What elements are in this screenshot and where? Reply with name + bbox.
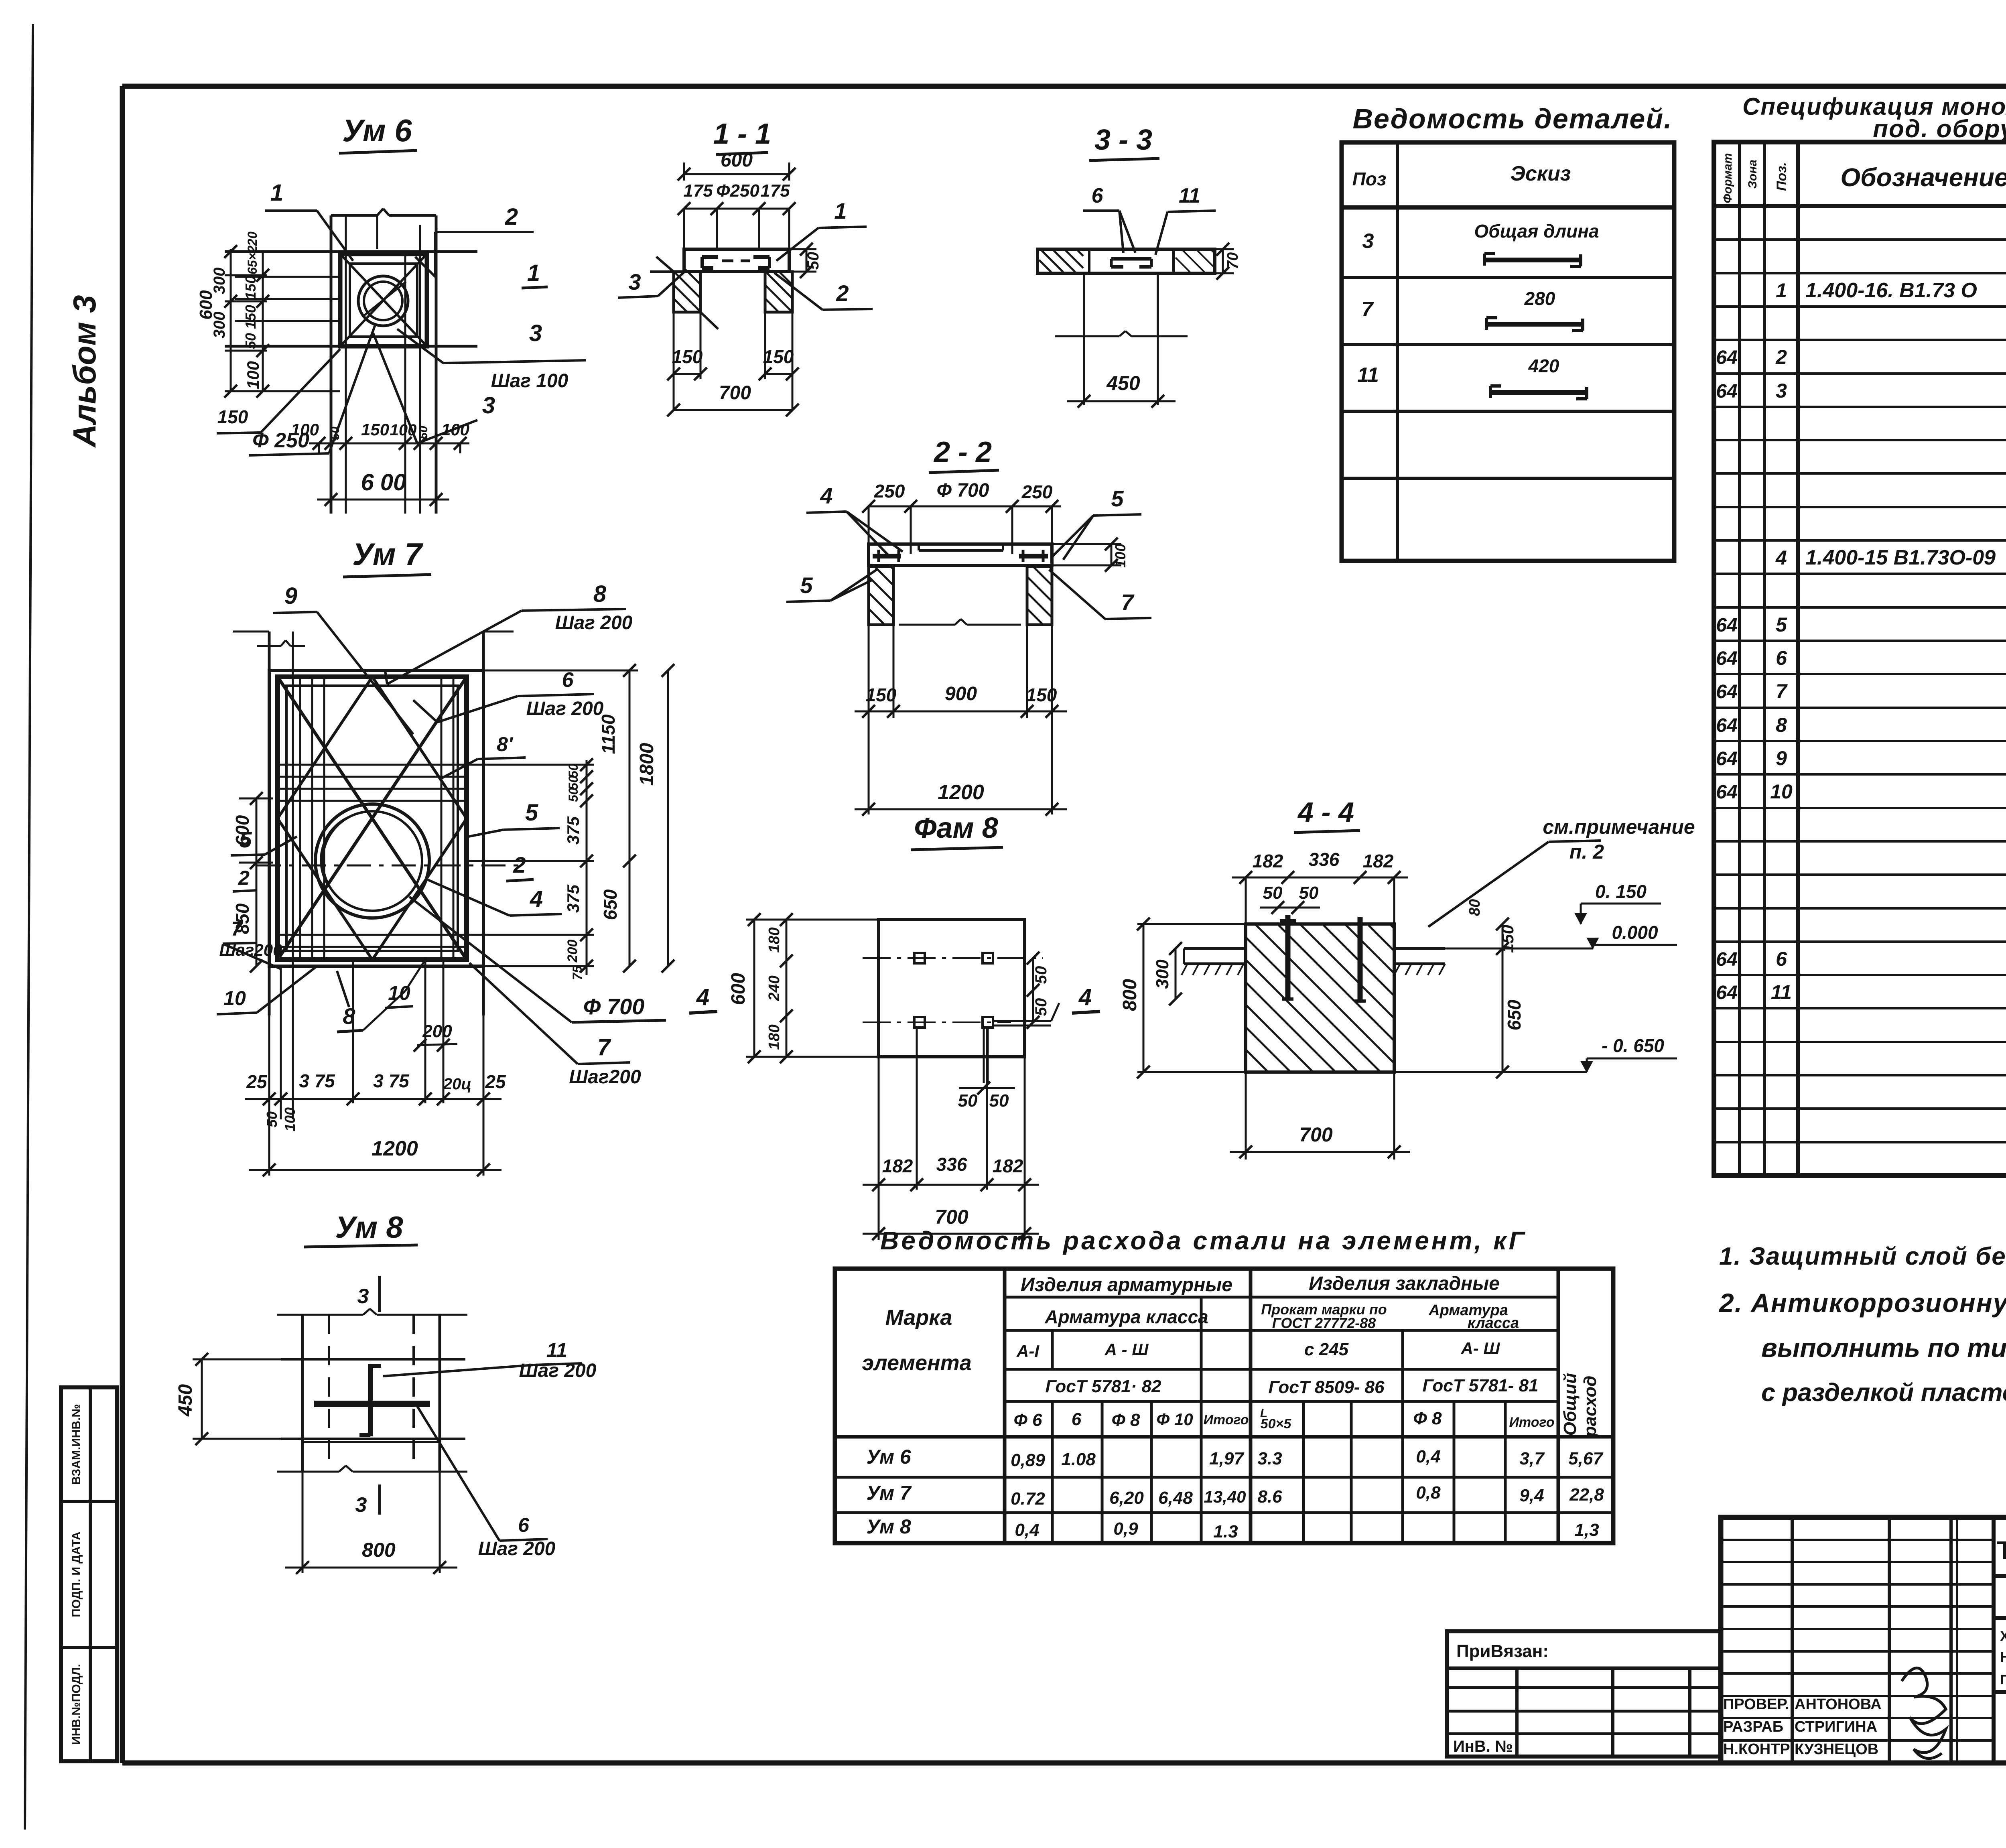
svg-text:5: 5: [1776, 613, 1787, 636]
parts list title: [1352, 103, 1672, 134]
svg-text:Ум 8: Ум 8: [866, 1515, 911, 1538]
leader 3 lower: [373, 333, 495, 443]
svg-text:100: 100: [1112, 544, 1129, 568]
svg-text:4: 4: [530, 886, 543, 912]
svg-text:2: 2: [1775, 346, 1787, 368]
2-2 leader 5 right: [1051, 486, 1141, 560]
svg-text:А - Ш: А - Ш: [1105, 1340, 1149, 1359]
svg-text:Шаг 200: Шаг 200: [555, 612, 633, 634]
plan Um6 reinforcement square: [340, 254, 427, 346]
svg-text:Ведомость расхода стали на эле: Ведомость расхода стали на элемент, кГ: [880, 1226, 1527, 1255]
1-1 dim 50: [789, 243, 822, 278]
svg-text:КУЗНЕЦОВ: КУЗНЕЦОВ: [1795, 1741, 1878, 1758]
svg-text:100: 100: [282, 1107, 298, 1131]
svg-text:Ф 10: Ф 10: [1156, 1410, 1193, 1429]
svg-text:2: 2: [238, 867, 250, 889]
svg-text:1.3: 1.3: [1213, 1522, 1238, 1541]
3-3 dim 70: [1215, 243, 1241, 280]
svg-text:2: 2: [505, 204, 518, 230]
svg-text:600: 600: [728, 973, 749, 1005]
svg-text:50: 50: [264, 1111, 280, 1127]
svg-text:1.08: 1.08: [1061, 1450, 1096, 1469]
1-1 leader 3: [618, 269, 687, 298]
svg-text:Поз.: Поз.: [1774, 162, 1789, 191]
svg-text:150: 150: [866, 684, 897, 705]
svg-text:Итого: Итого: [1203, 1412, 1249, 1428]
plan Um6 wall vertical strip: [331, 209, 436, 514]
section mark 1 (Um6): [522, 260, 548, 288]
svg-text:450: 450: [175, 1384, 196, 1417]
svg-text:- 0. 650: - 0. 650: [1602, 1035, 1664, 1056]
svg-text:150: 150: [242, 305, 259, 329]
svg-text:8: 8: [593, 581, 607, 607]
svg-text:100: 100: [390, 421, 417, 439]
1-1 bottom dims 150 150 700: [667, 312, 799, 416]
svg-text:336: 336: [936, 1154, 967, 1175]
svg-text:64: 64: [1716, 748, 1737, 770]
note 2 line3: [1761, 1379, 2006, 1407]
title block stage cells: [1994, 1618, 2006, 1692]
1-1 leader 1: [776, 198, 867, 261]
Um7 dim 1800: [636, 664, 674, 973]
svg-text:6 00: 6 00: [361, 469, 406, 496]
svg-text:ГосТ 5781- 81: ГосТ 5781- 81: [1423, 1376, 1539, 1395]
svg-text:Ф 700: Ф 700: [583, 994, 645, 1019]
svg-text:50: 50: [417, 426, 430, 439]
svg-text:Эскиз: Эскиз: [1511, 162, 1571, 185]
Um8 wall strip: [277, 1309, 467, 1472]
svg-text:64: 64: [1716, 982, 1737, 1003]
svg-text:Поз: Поз: [1352, 169, 1387, 189]
svg-text:Т П 9 0 1 - 7 - 1 7. 9 0: Т П 9 0 1 - 7 - 1 7. 9 0: [1997, 1536, 2006, 1565]
svg-text:1,3: 1,3: [1574, 1520, 1599, 1540]
svg-text:1: 1: [1776, 279, 1787, 302]
svg-text:11: 11: [1179, 184, 1200, 207]
svg-text:3 75: 3 75: [299, 1070, 335, 1091]
svg-text:375: 375: [564, 884, 583, 913]
svg-text:Ум 6: Ум 6: [866, 1446, 911, 1468]
svg-text:расход: расход: [1580, 1376, 1600, 1438]
svg-text:ХЛОРАТОРНАЯ ДЛЯ ОБЕЗЗАРАЖИВА-: ХЛОРАТОРНАЯ ДЛЯ ОБЕЗЗАРАЖИВА-: [2000, 1629, 2006, 1644]
svg-text:Общая длина: Общая длина: [1474, 221, 1599, 242]
svg-text:Ф 8: Ф 8: [1111, 1410, 1140, 1430]
svg-text:3: 3: [482, 392, 495, 418]
svg-text:выполнить по типу пола „ 1" на: выполнить по типу пола „ 1" на листе АР-…: [1761, 1333, 2006, 1363]
svg-text:336: 336: [1309, 849, 1340, 870]
3-3 leader 6: [1083, 184, 1135, 253]
svg-text:1. Защитный слой бетона - 20: 1. Защитный слой бетона - 20мм.: [1719, 1243, 2006, 1270]
svg-text:300: 300: [1153, 959, 1172, 989]
4-4 floor slabs left right: [1182, 948, 1445, 975]
parts row pos7: [1362, 288, 1583, 331]
svg-text:182: 182: [1363, 851, 1394, 871]
svg-text:375: 375: [564, 816, 583, 845]
svg-text:64: 64: [1716, 648, 1737, 669]
svg-text:800: 800: [1119, 979, 1141, 1011]
svg-text:ПриВязан:: ПриВязан:: [1456, 1641, 1549, 1661]
Um7 wall verticals with breaks: [233, 632, 514, 1015]
svg-text:РАЗРАБ: РАЗРАБ: [1723, 1718, 1783, 1735]
svg-text:650: 650: [1504, 999, 1525, 1030]
svg-text:64: 64: [1716, 615, 1737, 636]
svg-text:200: 200: [422, 1021, 452, 1041]
svg-text:НИЯ ПИТЬЕВЫХ И СТОЧНЫХ ВОД: НИЯ ПИТЬЕВЫХ И СТОЧНЫХ ВОД: [2000, 1649, 2006, 1665]
svg-text:см.примечание: см.примечание: [1543, 816, 1695, 838]
title block left grid: [1721, 1517, 1994, 1763]
signature scribbles: [1902, 1668, 1946, 1759]
Um8 monolith edges: [281, 1359, 465, 1442]
Um8 leader 11 shag200: [383, 1339, 597, 1381]
svg-text:50: 50: [242, 333, 259, 349]
svg-text:3: 3: [1362, 229, 1374, 253]
svg-text:50: 50: [1299, 883, 1319, 903]
svg-text:64: 64: [1716, 715, 1737, 736]
svg-text:6: 6: [1072, 1409, 1082, 1429]
svg-text:64: 64: [1716, 782, 1737, 803]
note reference see note p2: [1428, 816, 1695, 927]
svg-text:5,67: 5,67: [1568, 1449, 1604, 1468]
svg-text:20ц: 20ц: [443, 1075, 471, 1093]
svg-text:250: 250: [874, 481, 905, 502]
4-4 level -0.650: [1394, 1035, 1677, 1072]
svg-text:25: 25: [485, 1071, 506, 1092]
Fam8 bolt leader lines: [958, 1003, 1059, 1111]
2-2 dim 100 right: [1052, 538, 1129, 572]
label F700: [409, 897, 666, 1022]
svg-text:ПРОИЗВОДИТЕЛЬНОСТЬЮ 50КГХЛОРА: ПРОИЗВОДИТЕЛЬНОСТЬЮ 50КГХЛОРА: [2000, 1672, 2006, 1688]
svg-text:6,20: 6,20: [1109, 1488, 1144, 1508]
Fam8 bottom dims 182 336 182: [863, 1028, 1039, 1240]
specification rows text: [1716, 207, 2006, 1171]
4-4 level 0.150: [1575, 881, 1661, 924]
svg-text:Зона: Зона: [1746, 160, 1759, 189]
svg-text:11: 11: [1771, 981, 1792, 1003]
2-2 leader 7: [1049, 570, 1151, 619]
svg-text:1 - 1: 1 - 1: [713, 118, 771, 150]
svg-text:0,8: 0,8: [1416, 1483, 1441, 1503]
svg-text:150: 150: [672, 346, 703, 367]
svg-text:50: 50: [566, 788, 581, 802]
svg-text:11: 11: [1357, 364, 1379, 387]
svg-text:20: 20: [245, 232, 260, 246]
svg-text:2: 2: [513, 852, 526, 877]
steel table grid: [835, 1269, 1613, 1543]
leader 8 shag200 top: [385, 581, 633, 684]
svg-text:ПОДП. И ДАТА: ПОДП. И ДАТА: [70, 1531, 83, 1617]
svg-text:ГосТ 5781· 82: ГосТ 5781· 82: [1046, 1377, 1161, 1396]
steel table data rows: [866, 1446, 1604, 1541]
4-4 right dims 80 150 650: [1466, 899, 1525, 1078]
svg-text:175: 175: [683, 181, 713, 201]
3-3 wall below: [1055, 273, 1188, 336]
svg-text:ПРОВЕР.: ПРОВЕР.: [1723, 1696, 1789, 1713]
section 1-1 title: [713, 118, 771, 154]
leader 4 (Um7): [425, 879, 562, 916]
svg-text:Ф250: Ф250: [716, 181, 759, 201]
leader 5 right: [469, 800, 560, 837]
svg-text:1.400-16. В1.73 О: 1.400-16. В1.73 О: [1805, 279, 1977, 302]
svg-text:4: 4: [1775, 546, 1787, 569]
svg-text:10: 10: [388, 982, 410, 1004]
svg-text:600: 600: [196, 290, 216, 320]
svg-text:450: 450: [1106, 372, 1140, 394]
parts row pos3: [1362, 221, 1599, 266]
label F250: [249, 325, 375, 455]
4-4 dim 300: [1153, 942, 1182, 1005]
leader 5 left: [231, 827, 297, 855]
svg-text:Шаг 200: Шаг 200: [519, 1360, 597, 1381]
svg-text:0,89: 0,89: [1011, 1450, 1045, 1470]
svg-text:64: 64: [1716, 949, 1737, 970]
title block project name cell: [1994, 1618, 2006, 1763]
svg-text:150: 150: [217, 406, 248, 427]
steel table headers: [862, 1273, 1600, 1437]
svg-text:850: 850: [232, 903, 253, 934]
note 2 line1: [1718, 1288, 2006, 1318]
svg-text:3 75: 3 75: [373, 1070, 410, 1091]
svg-text:50: 50: [1263, 883, 1283, 903]
svg-text:3: 3: [1776, 380, 1787, 402]
4-4 foundation block hatched: [1246, 924, 1394, 1072]
svg-text:1: 1: [834, 198, 847, 223]
svg-text:150: 150: [242, 276, 259, 300]
svg-text:650: 650: [600, 889, 621, 920]
svg-text:3: 3: [355, 1493, 367, 1517]
Um7 reinforcement frame: [278, 677, 467, 960]
svg-text:Шаг 200: Шаг 200: [526, 698, 604, 719]
section 2-2 title: [929, 436, 999, 473]
2-2 leader 5 left: [786, 570, 877, 602]
svg-text:75: 75: [570, 965, 585, 980]
privyazan table: [1447, 1631, 1721, 1757]
svg-text:8': 8': [497, 733, 514, 755]
svg-text:1.400-15 В1.73О-09: 1.400-15 В1.73О-09: [1805, 546, 1996, 569]
specification title: [1742, 93, 2006, 143]
svg-text:8.6: 8.6: [1257, 1487, 1282, 1507]
svg-text:Изделия арматурные: Изделия арматурные: [1021, 1274, 1232, 1296]
section mark 4 right: [1072, 984, 1100, 1013]
svg-text:200: 200: [565, 940, 580, 963]
svg-text:с разделкой пластораствором: с разделкой пластораствором анкерных бол…: [1761, 1379, 2006, 1407]
Um7 left dims 600 850: [232, 792, 273, 973]
svg-text:Ф 8: Ф 8: [1413, 1409, 1442, 1428]
svg-text:Ведомость деталей.: Ведомость деталей.: [1352, 103, 1672, 134]
label 150 diagonal (Um6): [217, 349, 340, 433]
svg-text:6: 6: [562, 668, 574, 692]
svg-text:7: 7: [1121, 589, 1135, 615]
svg-text:9: 9: [1776, 747, 1787, 770]
svg-text:9,4: 9,4: [1519, 1486, 1544, 1505]
svg-text:1: 1: [270, 180, 283, 206]
svg-text:22,8: 22,8: [1569, 1485, 1604, 1505]
leader 2 (Um6): [415, 204, 534, 277]
note 2 line2: [1761, 1333, 2006, 1363]
svg-text:6: 6: [1092, 184, 1104, 207]
leader 10 left: [217, 966, 317, 1014]
Um7 monolith rectangle: [269, 670, 483, 966]
svg-text:3: 3: [529, 320, 542, 346]
steel table title: [880, 1226, 1527, 1255]
svg-text:с 245: с 245: [1304, 1340, 1349, 1359]
Um7 bottom dim chain: [245, 960, 506, 1176]
svg-text:0,4: 0,4: [1015, 1520, 1039, 1540]
Fam8 left dim 180 240 180: [766, 913, 914, 1063]
svg-text:3: 3: [357, 1285, 369, 1308]
svg-text:Итого: Итого: [1509, 1415, 1554, 1430]
svg-text:4 - 4: 4 - 4: [1297, 796, 1354, 828]
svg-text:50: 50: [1032, 966, 1050, 984]
svg-text:Арматура класса: Арматура класса: [1044, 1306, 1208, 1327]
4-4 bottom dim 700: [1230, 1072, 1410, 1160]
title block outer: [1721, 1517, 2006, 1763]
svg-text:100: 100: [441, 420, 469, 439]
svg-text:АНТОНОВА: АНТОНОВА: [1795, 1696, 1882, 1713]
left stamp strip table: [61, 1387, 117, 1761]
4-4 top dims 182 336 182: [1232, 849, 1408, 924]
2-2 bottom dims 150 900 150: [855, 625, 1067, 718]
svg-text:10: 10: [1770, 780, 1793, 803]
svg-text:п. 2: п. 2: [1569, 841, 1604, 863]
svg-text:Шаг 100: Шаг 100: [491, 370, 569, 392]
leader 7 shag200 left: [219, 918, 282, 969]
svg-text:А- Ш: А- Ш: [1460, 1339, 1500, 1358]
svg-text:ИНВ.№ПОДЛ.: ИНВ.№ПОДЛ.: [70, 1664, 83, 1745]
svg-text:Общий: Общий: [1560, 1373, 1580, 1436]
svg-text:13,40: 13,40: [1204, 1487, 1246, 1506]
Um6 dimension 600 bottom: [317, 469, 449, 506]
plan Um6 title: [339, 113, 417, 153]
leader 6 shag200: [413, 668, 604, 722]
Um8 section mark 3 bottom: [355, 1484, 380, 1517]
svg-text:элемента: элемента: [862, 1351, 971, 1375]
Um7 diagonal rebars: [278, 677, 467, 960]
svg-text:7: 7: [597, 1034, 611, 1060]
svg-text:6,48: 6,48: [1158, 1488, 1193, 1508]
svg-text:СТРИГИНА: СТРИГИНА: [1795, 1718, 1877, 1735]
svg-text:6: 6: [518, 1514, 530, 1536]
svg-text:9: 9: [284, 583, 297, 609]
svg-text:280: 280: [1524, 288, 1555, 309]
svg-text:150: 150: [361, 420, 389, 439]
svg-text:420: 420: [1528, 355, 1559, 376]
3-3 dim 450: [1067, 336, 1176, 408]
leader 9 (Um7): [273, 583, 413, 734]
note 1: [1719, 1243, 2006, 1270]
svg-text:Фам 8: Фам 8: [914, 812, 998, 844]
section 3-3 title: [1089, 124, 1159, 160]
svg-text:900: 900: [945, 683, 977, 705]
svg-text:3,7: 3,7: [1519, 1449, 1545, 1468]
svg-text:Шаг 200: Шаг 200: [478, 1538, 556, 1560]
svg-text:700: 700: [1299, 1123, 1333, 1146]
svg-text:1,97: 1,97: [1209, 1449, 1245, 1468]
3-3 leader 11: [1155, 184, 1216, 255]
svg-text:Шаг200: Шаг200: [569, 1066, 641, 1088]
svg-text:180: 180: [766, 1024, 783, 1050]
svg-text:Альбом 3: Альбом 3: [67, 295, 102, 448]
section 4-4 title: [1294, 796, 1360, 833]
2-2 slab: [869, 544, 1052, 565]
svg-text:6: 6: [1776, 948, 1787, 970]
svg-text:Формат: Формат: [1721, 153, 1734, 203]
leader 7 shag200 right: [469, 963, 641, 1088]
svg-text:6: 6: [1776, 647, 1787, 669]
svg-text:50: 50: [329, 426, 342, 440]
1-1 dim 600: [678, 150, 796, 181]
Fam8 left dim 600: [728, 913, 879, 1063]
svg-text:Ф 700: Ф 700: [937, 480, 989, 501]
svg-text:5: 5: [1111, 486, 1124, 511]
svg-text:50: 50: [1032, 998, 1050, 1016]
4-4 dim 800: [1119, 918, 1246, 1078]
svg-text:65×2: 65×2: [245, 246, 260, 274]
svg-text:100: 100: [244, 361, 262, 389]
svg-text:0,4: 0,4: [1416, 1447, 1440, 1466]
svg-text:7: 7: [1362, 298, 1374, 321]
svg-text:0.000: 0.000: [1612, 922, 1658, 943]
parts row pos11: [1357, 355, 1587, 399]
svg-text:4: 4: [696, 984, 709, 1010]
svg-text:1800: 1800: [636, 743, 658, 786]
Fam8 right dim 50 50: [1027, 952, 1050, 1029]
svg-text:10: 10: [223, 987, 246, 1009]
svg-text:Изделия закладные: Изделия закладные: [1309, 1273, 1500, 1294]
svg-text:100: 100: [291, 420, 319, 439]
svg-text:250: 250: [1021, 481, 1053, 502]
svg-text:0.72: 0.72: [1011, 1489, 1045, 1509]
svg-text:150: 150: [1026, 684, 1057, 705]
svg-text:64: 64: [1716, 347, 1737, 368]
svg-text:240: 240: [766, 975, 783, 1001]
svg-text:0,9: 0,9: [1113, 1519, 1138, 1539]
svg-text:700: 700: [719, 382, 751, 404]
svg-text:1200: 1200: [938, 781, 984, 804]
1-1 leader 2: [774, 273, 873, 310]
svg-text:Марка: Марка: [885, 1306, 952, 1330]
svg-text:под. оборудование.: под. оборудование.: [1873, 115, 2006, 143]
2-2 foundation blocks hatched: [869, 567, 1052, 625]
svg-text:1: 1: [527, 260, 540, 286]
2-2 dim 1200: [855, 718, 1067, 816]
svg-text:25: 25: [246, 1071, 268, 1092]
svg-text:3.3: 3.3: [1257, 1449, 1282, 1468]
1-1 slab: [684, 249, 789, 272]
title block doc number: [1994, 1536, 2006, 1576]
4-4 block top edge recess: [1246, 924, 1394, 948]
svg-text:600: 600: [232, 815, 253, 846]
plan Um8 title: [304, 1210, 418, 1247]
leader 3 shag 100: [397, 320, 586, 392]
svg-text:64: 64: [1716, 681, 1737, 703]
plan Um7 title: [343, 536, 431, 577]
svg-text:182: 182: [1253, 851, 1283, 871]
svg-text:Н.КОНТР: Н.КОНТР: [1723, 1741, 1790, 1758]
svg-text:Ум 7: Ум 7: [866, 1482, 912, 1504]
Um7 dim 1200: [249, 1137, 501, 1176]
svg-text:700: 700: [935, 1206, 968, 1228]
Um6 left dimension chain: [196, 232, 340, 398]
Um7 horizontal mesh bars: [278, 765, 467, 947]
Um8 dim 450: [175, 1353, 281, 1445]
3-3 slab: [1038, 249, 1215, 273]
svg-text:800: 800: [362, 1539, 396, 1561]
svg-text:50: 50: [989, 1091, 1009, 1111]
Um8 leader 6 shag200: [417, 1406, 556, 1560]
svg-text:Ф 6: Ф 6: [1013, 1410, 1042, 1430]
Um7 dim 1150 650: [483, 664, 638, 973]
svg-text:1150: 1150: [598, 714, 619, 754]
svg-text:8: 8: [1776, 714, 1787, 736]
